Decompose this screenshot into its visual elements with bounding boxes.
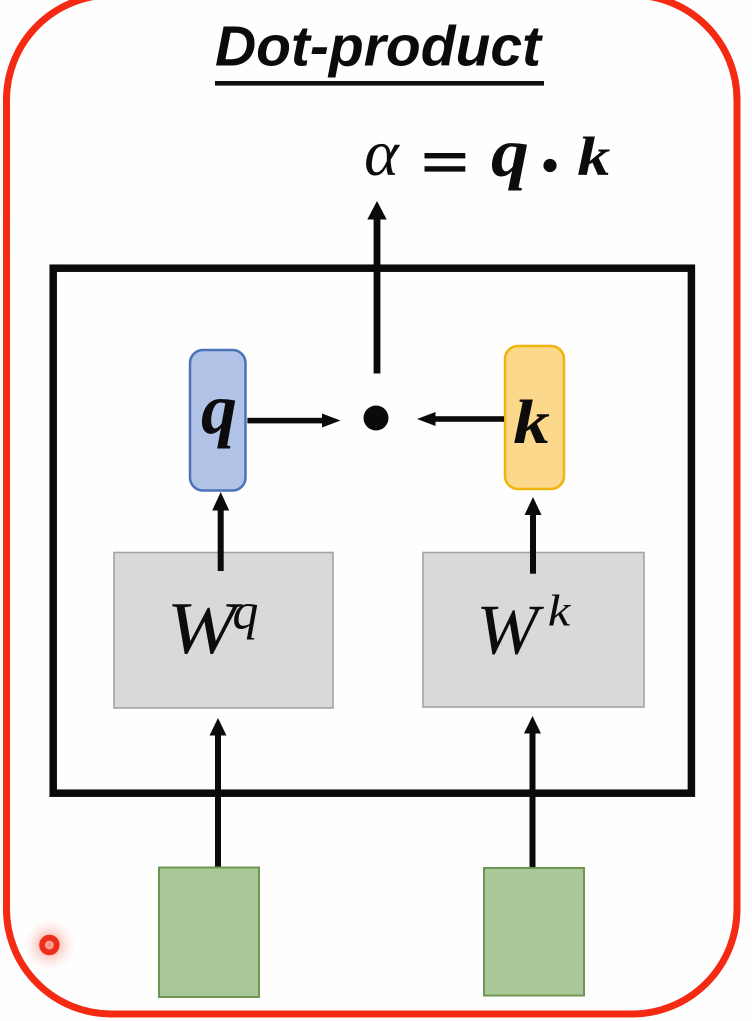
gray box Wk — [423, 553, 644, 708]
svg-text:q: q — [491, 114, 529, 191]
formula equals — [425, 153, 466, 172]
svg-text:k: k — [513, 388, 550, 457]
arrow Wk to k — [525, 497, 542, 574]
svg-text:q: q — [232, 584, 258, 641]
yellow rounded rect k — [505, 346, 564, 489]
dot product node — [364, 406, 389, 431]
svg-text:α: α — [364, 117, 400, 190]
arrow k to dot — [417, 412, 504, 426]
arrow Wq to q — [212, 492, 229, 571]
svg-text:q: q — [201, 369, 237, 449]
formula dot operator — [543, 159, 556, 172]
arrow from dot to formula (output arrow) — [367, 201, 386, 374]
green input box right — [484, 868, 584, 996]
big black box — [53, 268, 691, 793]
arrow input to Wq — [210, 718, 227, 868]
svg-text:k: k — [548, 588, 571, 636]
blue rounded rect q — [190, 350, 246, 491]
svg-text:W: W — [167, 588, 243, 670]
arrow input to Wk — [524, 716, 541, 868]
svg-text:k: k — [577, 127, 610, 188]
arrow q to dot — [247, 414, 340, 428]
title underline — [215, 81, 544, 86]
laser pointer glow — [23, 919, 75, 971]
svg-text:Dot-product: Dot-product — [215, 15, 543, 79]
gray box Wq — [114, 553, 333, 709]
green input box left — [159, 868, 259, 998]
svg-text:W: W — [476, 590, 545, 669]
laser pointer ring — [42, 938, 57, 953]
